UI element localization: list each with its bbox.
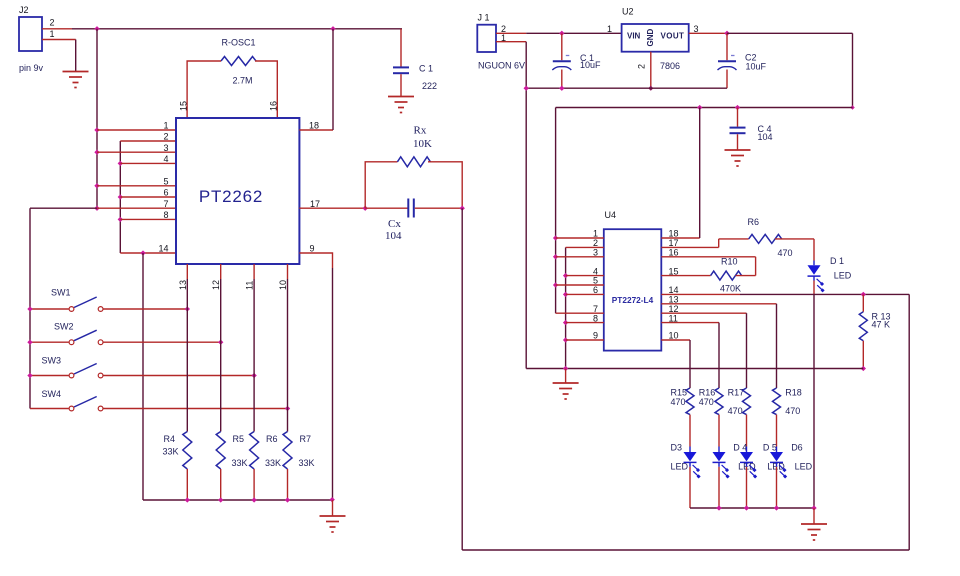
wire D4 cathode to bus — [718, 467, 720, 508]
wire LED ground bus — [690, 507, 814, 509]
svg-text:NGUON 6V: NGUON 6V — [478, 61, 525, 71]
svg-text:6: 6 — [593, 285, 598, 295]
svg-text:10: 10 — [669, 331, 679, 341]
wire U4 pin7 — [556, 312, 604, 314]
svg-text:2: 2 — [50, 18, 55, 28]
wire R17 column — [746, 313, 748, 388]
svg-text:470: 470 — [728, 406, 743, 416]
node dot busB row8 — [118, 217, 123, 222]
svg-text:10K: 10K — [413, 138, 432, 150]
wire pin18 vertical to top bus — [332, 29, 334, 130]
node dot bus ground corner — [329, 497, 334, 502]
wire U2 GND pin down — [650, 52, 652, 88]
wire R15 column — [689, 340, 691, 388]
node dot SW2 right column — [218, 340, 223, 345]
node dot RX gnd bus at V2 — [563, 366, 568, 371]
wire VCC right vertical — [852, 33, 854, 107]
svg-text:U2: U2 — [622, 6, 634, 16]
wire U4 pin14 row to right — [661, 293, 740, 295]
node dot V2 pin6 — [563, 292, 568, 297]
node dot busA row1 — [94, 127, 99, 132]
svg-text:VIN: VIN — [627, 32, 641, 41]
svg-text:10: 10 — [278, 280, 288, 290]
wire J2 pin1 stub — [42, 39, 76, 41]
svg-text:R7: R7 — [300, 434, 312, 444]
IC U1 PT2262 — [176, 118, 299, 264]
svg-text:D3: D3 — [671, 443, 683, 453]
wire PT2262 pin5 — [97, 185, 176, 187]
node dot bus R7 — [285, 497, 290, 502]
svg-text:470K: 470K — [720, 284, 741, 294]
wire U4 pin12 row — [661, 312, 746, 314]
node dot V1 pin1 — [553, 235, 558, 240]
connector J1 — [477, 13, 525, 71]
svg-text:R5: R5 — [233, 434, 245, 444]
wire bus A vertical x=97 — [96, 29, 98, 208]
svg-text:D6: D6 — [791, 443, 803, 453]
wire pin9 stub (U1) — [299, 253, 332, 268]
ground (C4) — [725, 150, 751, 166]
node dot SW4 right column — [285, 406, 290, 411]
capacitor Cx — [365, 199, 462, 243]
node dot gnd bus left — [524, 86, 529, 91]
capacitor C1 (10uF) — [552, 33, 601, 88]
wire pin18 vertical to VCC bus — [699, 108, 701, 239]
wire D1 column to LED bus — [813, 294, 815, 508]
svg-text:SW2: SW2 — [54, 322, 74, 332]
ground (TX bottom) — [320, 516, 346, 532]
node dot LED bus D4 — [716, 505, 721, 510]
LED D5 — [740, 443, 785, 479]
wire U4 pin16 stub — [661, 256, 755, 258]
wire ground stub (LED bus) — [813, 508, 815, 524]
wire R18 column — [776, 304, 778, 388]
svg-text:47 K: 47 K — [872, 320, 891, 330]
wire U2 VOUT stub — [689, 32, 727, 34]
wire R16 to D4 — [718, 415, 720, 447]
resistor R5 — [216, 432, 247, 501]
wire PT2262 pin6 — [120, 196, 176, 198]
svg-text:470: 470 — [699, 397, 714, 407]
svg-text:12: 12 — [211, 280, 221, 290]
ground (C1 222) — [388, 97, 414, 113]
ground (RX bus) — [553, 383, 579, 399]
wire J1 pin2 to U2 VIN — [526, 32, 621, 34]
svg-text:5: 5 — [163, 177, 168, 187]
node dot V1 pin5 — [553, 282, 558, 287]
node dot busA row3 — [94, 150, 99, 155]
node dot busA row7 — [94, 206, 99, 211]
node corner dot VCC — [850, 105, 855, 110]
svg-text:LED: LED — [795, 462, 813, 472]
svg-text:13: 13 — [178, 280, 188, 290]
svg-text:R17: R17 — [728, 388, 745, 398]
capacitor C4 — [730, 108, 773, 151]
capacitor C1 (222) — [393, 29, 437, 97]
node dot U2 gnd on bus — [648, 86, 653, 91]
svg-text:1: 1 — [607, 24, 612, 34]
node dot LED bus D6 — [774, 505, 779, 510]
svg-text:3: 3 — [694, 24, 699, 34]
wire U4 pin3 — [556, 256, 604, 258]
wire outer loop right vertical — [908, 294, 910, 550]
svg-text:SW4: SW4 — [42, 389, 62, 399]
LED D4 — [713, 443, 757, 479]
resistor R16 — [699, 388, 723, 415]
wire PT2262 pin3 — [97, 151, 176, 153]
node dot Rx left tap — [363, 206, 368, 211]
node dot V2 pin4 — [563, 273, 568, 278]
wire U4 pin18 stub — [661, 237, 699, 239]
wire D3 cathode to bus — [689, 467, 691, 508]
wire pin13 column down — [186, 279, 188, 432]
wire PT2262 pin1 — [97, 129, 176, 131]
node dot R13 top — [861, 292, 866, 297]
svg-text:3: 3 — [163, 143, 168, 153]
wire left vertical to switches — [29, 208, 31, 408]
wire PT2262 pin14 — [120, 252, 176, 254]
switch SW4 — [30, 389, 288, 411]
wire J2 pin1 to ground — [75, 40, 77, 72]
node dot C2 top tap — [724, 31, 729, 36]
node dot LED bus D5 — [744, 505, 749, 510]
wire U4 pin1 — [556, 237, 604, 239]
node dot gnd bus C1 — [559, 86, 564, 91]
node dot SW1 right column — [185, 306, 190, 311]
svg-text:7: 7 — [163, 199, 168, 209]
svg-text:R6: R6 — [748, 217, 760, 227]
wire pin10 column down — [287, 279, 289, 432]
wire D5 cathode to bus — [746, 467, 748, 508]
switch SW2 — [30, 322, 221, 345]
svg-text:J 1: J 1 — [478, 13, 490, 23]
svg-text:R10: R10 — [721, 257, 738, 267]
node dot V2 pin9 — [563, 337, 568, 342]
wire U4 pin17 stub — [661, 246, 718, 248]
ground (LED bus) — [801, 524, 827, 540]
wire PT2262 pin7 — [97, 207, 176, 209]
wire J1 pin1 stub — [496, 41, 526, 43]
LED D3 — [671, 443, 701, 479]
node dot bus R4 — [185, 497, 190, 502]
connector J2 — [19, 5, 55, 73]
wire U4 pin11 row — [661, 322, 719, 324]
wire R16 column — [718, 323, 720, 388]
wire ground stub (RX bus) — [565, 369, 567, 384]
resistor R7 — [283, 432, 315, 501]
resistor R6 — [719, 217, 814, 258]
ground (J2) — [63, 72, 89, 88]
wire R17 to D5 — [746, 415, 748, 447]
node dot Cx right / outer loop — [460, 206, 465, 211]
wire pin18 stub — [299, 129, 333, 131]
wire R-OSC1 loop right (pin16) — [255, 61, 277, 118]
wire top VCC bus — [72, 28, 402, 30]
node dot VCC bus pin18 column — [697, 105, 702, 110]
svg-text:11: 11 — [669, 313, 678, 323]
svg-text:R6: R6 — [266, 434, 278, 444]
node dot LED bus D1 column — [811, 505, 816, 510]
wire pin17 jog up — [718, 239, 720, 248]
resistor R6 (33K) — [250, 432, 281, 501]
wire pin12 column down — [220, 279, 222, 432]
node dot busA row5 — [94, 183, 99, 188]
node dot bus R6 — [251, 497, 256, 502]
resistor Rx — [365, 125, 462, 209]
resistor R-OSC1 — [221, 38, 256, 86]
svg-text:PT2262: PT2262 — [199, 187, 263, 206]
svg-text:14: 14 — [158, 244, 168, 254]
wire outer loop bottom bus — [462, 549, 909, 551]
svg-text:15: 15 — [179, 101, 189, 111]
node dot SW3 right column — [251, 373, 256, 378]
svg-text:Cx: Cx — [388, 218, 401, 230]
resistor R4 — [163, 432, 192, 501]
node dot SW2 left — [27, 340, 32, 345]
svg-text:D 1: D 1 — [830, 256, 844, 266]
switch SW3 — [30, 356, 254, 378]
svg-text:2.7M: 2.7M — [233, 76, 253, 86]
node dot VCC bus C4 column — [735, 105, 740, 110]
node dot busB row6 — [118, 194, 123, 199]
svg-text:LED: LED — [671, 462, 689, 472]
IC U2 regulator 7806 — [622, 6, 689, 71]
svg-text:SW3: SW3 — [42, 356, 62, 366]
wire R10 right vertical — [755, 257, 757, 276]
wire U4 pin4 — [566, 275, 604, 277]
wire D6 cathode to bus — [776, 467, 778, 508]
wire J2 pin2 stub — [42, 28, 72, 30]
svg-text:1: 1 — [50, 29, 55, 39]
wire vertical x=143 pin14 to bottom bus — [142, 253, 144, 500]
wire U4 pin9 — [566, 339, 604, 341]
svg-text:R-OSC1: R-OSC1 — [222, 38, 256, 48]
wire U4 pin10 row — [661, 339, 690, 341]
wire PT2262 pin8 — [120, 218, 176, 220]
node dot SW1 left — [27, 306, 32, 311]
wire R18 to D6 — [776, 415, 778, 447]
svg-text:R4: R4 — [164, 434, 176, 444]
svg-text:GND: GND — [646, 29, 655, 47]
node junction top bus / pin18 branch — [330, 26, 335, 31]
wire bottom bus (TX) — [143, 499, 333, 501]
wire J1 pin1 vertical (ground rail) — [525, 42, 527, 369]
svg-text:8: 8 — [163, 210, 168, 220]
node dot V2 pin8 — [563, 320, 568, 325]
IC U4 PT2272-L4 — [604, 210, 662, 351]
resistor R18 — [773, 388, 802, 417]
svg-text:9: 9 — [593, 331, 598, 341]
wire R-OSC1 loop left (pin15) — [187, 61, 221, 118]
svg-text:PT2272-L4: PT2272-L4 — [612, 295, 654, 305]
svg-text:222: 222 — [422, 81, 437, 91]
wire row7 left extension — [30, 207, 97, 209]
svg-text:J2: J2 — [19, 5, 29, 15]
wire ground stub (TX bus) — [332, 500, 334, 516]
svg-text:1: 1 — [163, 121, 168, 131]
wire V1 VCC vertical (U4 odd pins) — [555, 108, 557, 314]
LED D1 — [808, 256, 852, 292]
svg-text:104: 104 — [385, 230, 402, 242]
node dot bus R5 — [218, 497, 223, 502]
resistor R15 — [671, 388, 695, 415]
svg-text:104: 104 — [758, 132, 773, 142]
svg-text:11: 11 — [245, 281, 255, 290]
node dot busB row4 — [118, 161, 123, 166]
wire pin11 column down — [253, 279, 255, 432]
wire VCC bus (RX section) — [556, 107, 853, 109]
svg-text:U4: U4 — [605, 210, 617, 220]
wire U4 pin6 — [566, 293, 604, 295]
wire RX ground bus — [526, 368, 863, 370]
resistor R17 — [728, 388, 751, 417]
svg-text:D 5: D 5 — [763, 443, 777, 453]
wire ground bus (input section) — [526, 87, 727, 89]
svg-text:33K: 33K — [232, 458, 248, 468]
svg-text:3: 3 — [593, 248, 598, 258]
svg-text:7806: 7806 — [660, 61, 680, 71]
wire outer loop left vertical — [461, 208, 463, 550]
wire VOUT to right corner — [727, 32, 853, 34]
node dot pin14 row — [140, 250, 145, 255]
resistor R13 — [859, 294, 890, 368]
svg-text:6: 6 — [163, 188, 168, 198]
svg-text:R18: R18 — [785, 388, 802, 398]
svg-text:2: 2 — [637, 64, 647, 69]
svg-text:470: 470 — [785, 406, 800, 416]
wire J1 pin2 stub — [496, 32, 526, 34]
svg-text:17: 17 — [310, 199, 320, 209]
wire R6 to D1 — [813, 239, 815, 261]
svg-text:9: 9 — [310, 244, 315, 254]
node dot V1 pin3 — [553, 254, 558, 259]
svg-text:SW1: SW1 — [51, 288, 71, 298]
wire U4 pin5 — [556, 284, 604, 286]
svg-text:470: 470 — [671, 397, 686, 407]
svg-text:18: 18 — [309, 121, 319, 131]
svg-text:10uF: 10uF — [746, 61, 767, 71]
svg-text:VOUT: VOUT — [661, 32, 685, 41]
svg-text:470: 470 — [778, 248, 793, 258]
svg-text:4: 4 — [163, 154, 168, 164]
svg-text:10uF: 10uF — [580, 60, 601, 70]
wire V2 GND vertical (U4 even pins) — [565, 247, 567, 368]
switch SW1 — [30, 288, 187, 312]
svg-text:33K: 33K — [299, 458, 315, 468]
resistor R10 — [661, 257, 755, 281]
svg-text:2: 2 — [163, 132, 168, 142]
svg-text:33K: 33K — [163, 447, 179, 457]
svg-text:16: 16 — [669, 248, 679, 258]
wire pin17 row — [299, 207, 365, 209]
svg-text:D 4: D 4 — [733, 443, 747, 453]
svg-text:pin 9v: pin 9v — [19, 63, 44, 73]
wire D1 cathode down — [813, 281, 815, 295]
svg-text:LED: LED — [834, 271, 852, 281]
wire U4 pin2 — [566, 246, 604, 248]
svg-text:33K: 33K — [265, 458, 281, 468]
LED D6 — [770, 443, 813, 479]
svg-text:8: 8 — [593, 313, 598, 323]
node junction top bus / bus A — [94, 26, 99, 31]
node dot C1 top tap — [559, 31, 564, 36]
wire U4 pin13 row — [661, 303, 776, 305]
svg-text:16: 16 — [269, 101, 279, 111]
wire R15 to D3 — [689, 415, 691, 447]
svg-text:C 1: C 1 — [419, 64, 433, 74]
wire bus B vertical x=120 — [119, 141, 121, 253]
wire PT2262 pin4 — [120, 162, 176, 164]
wire PT2262 pin2 — [120, 140, 176, 142]
node dot R13 bottom on RX gnd bus — [861, 366, 866, 371]
node dot SW3 left — [27, 373, 32, 378]
wire U4 pin8 — [566, 322, 604, 324]
capacitor C2 (10uF) — [718, 33, 767, 88]
svg-text:Rx: Rx — [414, 125, 427, 137]
svg-text:15: 15 — [669, 266, 679, 276]
